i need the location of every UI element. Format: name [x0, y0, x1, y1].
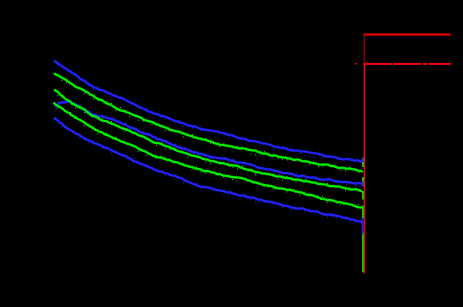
blue tick blue2 arrival	[362, 182, 364, 187]
curve blue2	[55, 102, 362, 184]
curve green3	[54, 103, 363, 208]
curve green2	[54, 90, 362, 192]
red top horizontal line	[364, 34, 451, 36]
red second horizontal line	[364, 63, 451, 65]
red stub left of vertical	[355, 63, 357, 65]
speckle blue1	[57, 66, 351, 163]
red vertical line	[364, 65, 366, 274]
speckle blue2	[67, 100, 361, 187]
speckle green1	[57, 73, 360, 173]
curve blue3	[54, 118, 362, 222]
blue tick blue1 arrival	[362, 158, 364, 163]
speckle green2	[57, 95, 351, 191]
green vertical line (segmented)	[362, 158, 364, 272]
notches on second horizontal	[392, 63, 429, 65]
speckle green3	[57, 108, 360, 206]
speckle blue3	[57, 119, 355, 224]
blue tick blue3 arrival	[362, 218, 364, 234]
red vertical dim segment between horizontals	[364, 35, 366, 63]
curve green1	[54, 73, 362, 171]
curve blue1	[54, 61, 362, 162]
